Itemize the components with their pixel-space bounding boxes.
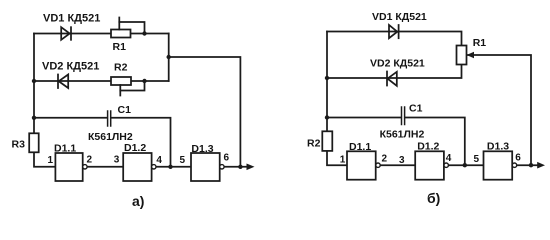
svg-text:VD1 КД521: VD1 КД521 xyxy=(372,11,427,23)
svg-text:D1.2: D1.2 xyxy=(417,141,439,153)
svg-text:К561ЛН2: К561ЛН2 xyxy=(380,129,425,141)
svg-text:1: 1 xyxy=(340,154,346,165)
svg-text:3: 3 xyxy=(114,155,120,166)
svg-text:D1.3: D1.3 xyxy=(487,141,509,153)
svg-text:D1.2: D1.2 xyxy=(124,142,146,154)
svg-text:R3: R3 xyxy=(12,139,26,151)
svg-text:R2: R2 xyxy=(307,138,321,150)
svg-text:D1.3: D1.3 xyxy=(191,143,213,155)
svg-text:6: 6 xyxy=(515,153,521,164)
svg-text:4: 4 xyxy=(156,155,162,166)
svg-text:R1: R1 xyxy=(473,37,487,49)
svg-text:б): б) xyxy=(427,190,440,206)
svg-text:D1.1: D1.1 xyxy=(349,141,371,153)
svg-text:D1.1: D1.1 xyxy=(54,143,76,155)
svg-text:а): а) xyxy=(132,193,144,209)
svg-text:C1: C1 xyxy=(118,104,132,116)
svg-text:2: 2 xyxy=(87,155,93,166)
svg-text:VD2 КД521: VD2 КД521 xyxy=(370,58,425,70)
svg-text:5: 5 xyxy=(180,155,186,166)
svg-text:3: 3 xyxy=(399,155,405,166)
svg-text:C1: C1 xyxy=(409,103,423,115)
svg-text:1: 1 xyxy=(48,155,54,166)
svg-text:R1: R1 xyxy=(113,41,127,53)
svg-text:5: 5 xyxy=(474,154,480,165)
svg-text:R2: R2 xyxy=(114,62,128,74)
svg-text:2: 2 xyxy=(382,153,388,164)
svg-text:VD1 КД521: VD1 КД521 xyxy=(43,13,100,25)
svg-text:VD2 КД521: VD2 КД521 xyxy=(42,61,99,73)
svg-text:6: 6 xyxy=(224,153,230,164)
svg-text:4: 4 xyxy=(446,153,452,164)
